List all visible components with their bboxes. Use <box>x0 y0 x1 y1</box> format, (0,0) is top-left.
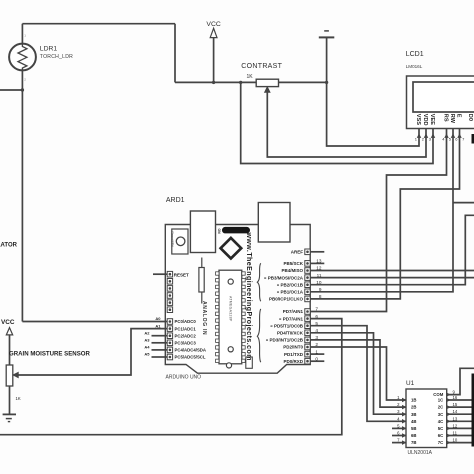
svg-text:3: 3 <box>315 335 318 340</box>
svg-text:PD7/AIN1: PD7/AIN1 <box>283 309 304 314</box>
svg-text:TORCH_LDR: TORCH_LDR <box>40 54 73 60</box>
svg-text:Reset BTN: Reset BTN <box>171 232 175 247</box>
svg-text:1K: 1K <box>247 74 254 80</box>
svg-text:1: 1 <box>315 349 318 354</box>
svg-text:« PB1/OC1A: « PB1/OC1A <box>277 290 304 295</box>
svg-text:4: 4 <box>315 328 318 333</box>
svg-text:1C: 1C <box>438 398 444 403</box>
svg-text:ULN2001A: ULN2001A <box>408 450 433 456</box>
svg-text:ON: ON <box>217 229 221 235</box>
svg-text:VSS: VSS <box>415 114 421 125</box>
svg-text:13: 13 <box>453 416 458 421</box>
svg-text:1K: 1K <box>16 396 21 401</box>
svg-text:6B: 6B <box>411 433 417 438</box>
svg-text:7: 7 <box>315 307 318 312</box>
svg-text:« PD7/AIN1: « PD7/AIN1 <box>279 316 304 321</box>
svg-text:COM: COM <box>433 392 443 397</box>
svg-text:4B: 4B <box>411 419 417 424</box>
svg-text:LCD1: LCD1 <box>406 51 424 58</box>
svg-text:« PD5/T1/OC0B: « PD5/T1/OC0B <box>270 323 304 328</box>
svg-text:CONTRAST: CONTRAST <box>241 63 282 70</box>
svg-text:A4: A4 <box>144 345 150 350</box>
svg-text:3C: 3C <box>438 412 444 417</box>
svg-text:PC1/ADC1: PC1/ADC1 <box>175 326 197 331</box>
svg-text:RW: RW <box>449 114 455 124</box>
svg-text:8: 8 <box>319 294 322 299</box>
svg-text:A0: A0 <box>155 316 161 321</box>
svg-text:U1: U1 <box>406 380 415 387</box>
svg-text:PB5/SCK: PB5/SCK <box>283 261 303 266</box>
svg-text:A1: A1 <box>155 323 161 328</box>
svg-text:6: 6 <box>315 314 318 319</box>
svg-text:ATMEGA328P: ATMEGA328P <box>228 296 232 322</box>
svg-text:D0: D0 <box>467 114 473 121</box>
svg-text:5: 5 <box>315 321 318 326</box>
svg-text:2C: 2C <box>438 405 444 410</box>
svg-text:11: 11 <box>453 431 458 436</box>
svg-text:LM016L: LM016L <box>406 64 423 69</box>
svg-text:VCC: VCC <box>1 319 15 326</box>
svg-text:« PD3/INT1/OC2B: « PD3/INT1/OC2B <box>266 338 304 343</box>
svg-text:12: 12 <box>316 266 322 271</box>
svg-text:ANALOG IN: ANALOG IN <box>201 301 207 335</box>
svg-text:PD1/TXD: PD1/TXD <box>284 352 304 357</box>
svg-text:PC3/ADC3: PC3/ADC3 <box>175 341 197 346</box>
svg-text:15: 15 <box>453 402 458 407</box>
svg-text:3B: 3B <box>411 412 417 417</box>
svg-text:PC0/ADC0: PC0/ADC0 <box>175 319 197 324</box>
svg-text:5C: 5C <box>438 426 444 431</box>
svg-text:6C: 6C <box>438 433 444 438</box>
svg-text:PC5/ADC5/SCL: PC5/ADC5/SCL <box>175 355 206 360</box>
svg-text:2B: 2B <box>411 405 417 410</box>
svg-text:9: 9 <box>319 287 322 292</box>
svg-text:A5: A5 <box>144 352 150 357</box>
svg-text:« PB3/MOSI/OC2A: « PB3/MOSI/OC2A <box>264 275 304 280</box>
svg-text:7C: 7C <box>438 440 444 445</box>
svg-text:GRAIN MOISTURE SENSOR: GRAIN MOISTURE SENSOR <box>9 351 91 358</box>
svg-text:10: 10 <box>453 438 458 443</box>
svg-text:www.TheEngineeringProjects.com: www.TheEngineeringProjects.com <box>245 232 252 361</box>
svg-text:PB4/MISO: PB4/MISO <box>281 268 303 273</box>
svg-text:PD2/INT0: PD2/INT0 <box>283 345 303 350</box>
svg-text:E: E <box>455 114 461 118</box>
svg-text:11: 11 <box>317 273 322 278</box>
svg-text:16: 16 <box>453 395 458 400</box>
svg-text:A3: A3 <box>144 338 150 343</box>
svg-text:ARD1: ARD1 <box>166 197 185 204</box>
svg-text:RS: RS <box>442 114 448 122</box>
svg-text:RESET: RESET <box>174 272 189 277</box>
svg-text:10: 10 <box>316 280 322 285</box>
svg-text:VCC: VCC <box>206 21 220 28</box>
svg-text:VEE: VEE <box>429 114 435 125</box>
svg-text:PD0/RXD: PD0/RXD <box>283 359 303 364</box>
svg-text:13: 13 <box>316 259 322 264</box>
svg-text:LDR1: LDR1 <box>40 46 58 53</box>
svg-text:2: 2 <box>315 342 318 347</box>
svg-text:VDD: VDD <box>422 114 428 126</box>
svg-text:5B: 5B <box>411 426 417 431</box>
svg-text:4C: 4C <box>438 419 444 424</box>
svg-text:A2: A2 <box>144 330 150 335</box>
svg-text:PD4/T0/XCK: PD4/T0/XCK <box>277 331 304 336</box>
svg-text:14: 14 <box>453 409 458 414</box>
svg-text:PB0/ICP1/CLKO: PB0/ICP1/CLKO <box>269 297 304 302</box>
svg-text:PC2/ADC2: PC2/ADC2 <box>175 333 197 338</box>
svg-text:0: 0 <box>315 356 318 361</box>
svg-text:« PB2/OC1B: « PB2/OC1B <box>277 282 304 287</box>
svg-text:ARDUINO UNO: ARDUINO UNO <box>166 375 202 381</box>
svg-text:AREF: AREF <box>291 250 304 255</box>
svg-text:REGULATOR: REGULATOR <box>0 242 18 248</box>
svg-text:1B: 1B <box>411 398 417 403</box>
svg-text:12: 12 <box>453 423 458 428</box>
svg-text:PC4/ADC4/SDA: PC4/ADC4/SDA <box>175 348 207 353</box>
svg-text:7B: 7B <box>411 440 417 445</box>
